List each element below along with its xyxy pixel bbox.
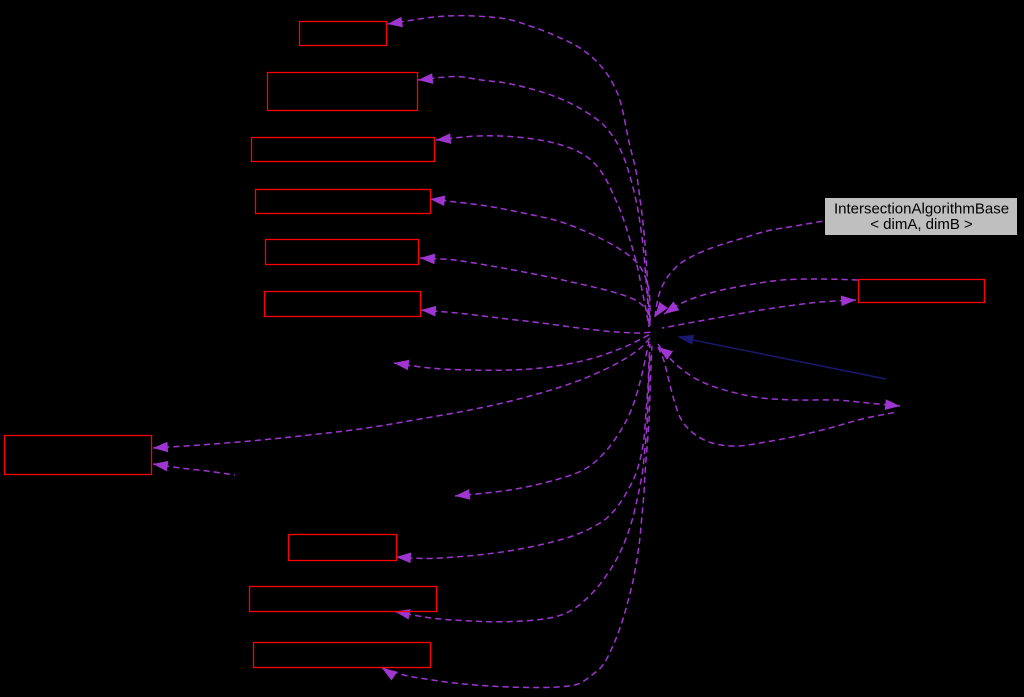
svg-text:< dimA, dimB >: < dimA, dimB > (870, 216, 973, 233)
